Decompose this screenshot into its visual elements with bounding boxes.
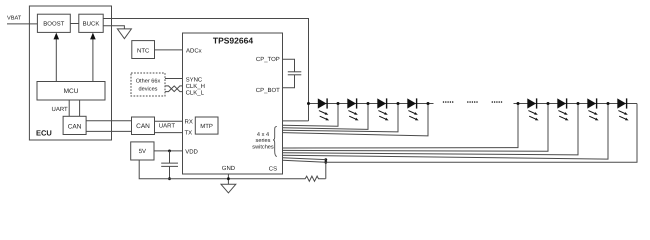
node N1: [337, 102, 340, 105]
svg-text:TPS92664: TPS92664: [213, 36, 253, 46]
NTC box: [132, 41, 155, 59]
CAN box (ECU): [63, 116, 86, 134]
switch bus line B3: [283, 104, 579, 155]
wire tap N0 (shared with supply drop): [308, 104, 310, 121]
svg-text:5V: 5V: [139, 148, 146, 155]
LED row wire (left): [309, 103, 434, 105]
wire BOOST to BUCK: [70, 23, 79, 25]
switch bus line B1: [283, 104, 519, 149]
svg-text:CP_TOP: CP_TOP: [256, 56, 280, 63]
svg-text:RX: RX: [185, 118, 193, 125]
node return-line junction: [324, 161, 327, 164]
brace: [273, 126, 277, 156]
MCU box: [37, 82, 105, 101]
Other 66x devices box (dashed): [131, 73, 165, 96]
svg-text:CAN: CAN: [136, 123, 150, 130]
string return line: [326, 104, 637, 163]
wire 5V to VDD: [154, 150, 183, 152]
wire NTC to ADCx: [155, 49, 183, 51]
node VDD-cap junction: [168, 150, 171, 153]
switch bus line B2: [283, 104, 549, 152]
capacitor C1 (VDD bypass): [169, 151, 171, 163]
regulator 5V: [131, 142, 154, 160]
CAN box (transceiver): [132, 117, 155, 135]
resistor R1 (current sense): [303, 176, 326, 181]
wire MCU to BUCK (arrow): [92, 38, 94, 82]
GND pin drop: [227, 174, 229, 184]
svg-text:BOOST: BOOST: [43, 21, 64, 28]
svg-text:CLK_L: CLK_L: [186, 90, 205, 97]
MTP block: [195, 117, 218, 134]
node N3: [397, 102, 400, 105]
wire CAN to CAN lower: [86, 130, 131, 132]
node GND rail junction: [227, 177, 230, 180]
switch bottom terminal line: [283, 160, 326, 162]
ellipsis dots group2: [467, 101, 478, 103]
svg-text:BUCK: BUCK: [83, 21, 100, 28]
regulator BOOST: [37, 14, 70, 32]
svg-text:CLK_H: CLK_H: [186, 83, 205, 90]
LED D15: [587, 98, 598, 120]
ground symbol: [221, 184, 236, 193]
svg-text:switches: switches: [252, 144, 274, 151]
CS node vertical: [325, 160, 327, 179]
wire 5V ground drop: [139, 160, 303, 179]
svg-text:MTP: MTP: [200, 123, 213, 130]
svg-text:NTC: NTC: [137, 47, 150, 54]
node N14: [577, 102, 580, 105]
svg-text:CP_BOT: CP_BOT: [256, 87, 280, 94]
svg-text:GND: GND: [222, 165, 236, 172]
switch bus line A4: [283, 104, 399, 132]
node N12: [517, 102, 520, 105]
node N0: [307, 102, 310, 105]
ellipsis dots group3: [492, 101, 503, 103]
node N15: [607, 102, 610, 105]
wire CLK twisted pair line1: [165, 86, 183, 92]
svg-text:ADCx: ADCx: [186, 47, 202, 54]
switch bus line A1: [283, 120, 309, 122]
svg-text:VBAT: VBAT: [7, 16, 22, 22]
wire VBAT to BOOST: [7, 23, 37, 25]
svg-text:CS: CS: [269, 165, 277, 172]
svg-text:series: series: [256, 137, 271, 144]
node N13: [547, 102, 550, 105]
capacitor C2 (charge pump): [283, 59, 295, 72]
LED D1: [318, 98, 329, 120]
node N2: [367, 102, 370, 105]
svg-text:devices: devices: [139, 86, 158, 93]
wire MCU to CAN line2: [79, 100, 81, 116]
svg-text:4 x 4: 4 x 4: [257, 132, 269, 138]
wire MCU to BOOST (arrow): [55, 38, 57, 82]
supply rail from BUCK (top): [103, 19, 308, 104]
svg-text:VDD: VDD: [185, 149, 198, 156]
svg-text:CAN: CAN: [68, 123, 82, 130]
svg-text:TX: TX: [185, 130, 193, 137]
switch bus line A2: [283, 104, 339, 127]
node cap-gnd junction: [168, 177, 171, 180]
LED D4: [407, 98, 418, 120]
wire CLK twisted pair line2: [165, 86, 183, 92]
wire CAN to TX: [155, 132, 183, 134]
svg-text:UART: UART: [159, 122, 176, 129]
LED row wire (right): [514, 103, 638, 105]
LED D13: [527, 98, 538, 120]
svg-text:ECU: ECU: [36, 128, 52, 137]
svg-text:Other 66x: Other 66x: [136, 77, 161, 84]
wire BUCK to arrow: [103, 26, 124, 29]
node CS-line junction: [324, 158, 327, 161]
wire SYNC: [165, 78, 183, 80]
wire CAN to RX: [155, 120, 183, 122]
node N4: [427, 102, 430, 105]
switch bus line B4: [283, 104, 609, 160]
LED D14: [557, 98, 568, 120]
ellipsis dots group1: [443, 101, 454, 103]
arrow symbol (LED supply): [117, 29, 131, 39]
IC U1 TPS92664: [183, 33, 283, 174]
svg-text:SYNC: SYNC: [186, 76, 203, 83]
switch bus line A5: [283, 104, 429, 136]
ECU box: [29, 6, 111, 140]
svg-text:MCU: MCU: [64, 88, 79, 95]
switch bus line A3: [283, 104, 369, 130]
LED D2: [347, 98, 358, 120]
LED D3: [377, 98, 388, 120]
regulator BUCK: [79, 14, 103, 32]
LED D16: [617, 98, 628, 120]
wire CAN to CAN upper: [86, 120, 131, 122]
svg-text:UART: UART: [52, 106, 69, 113]
CS sense line: [283, 158, 326, 160]
wire MCU to CAN line1: [68, 100, 70, 116]
